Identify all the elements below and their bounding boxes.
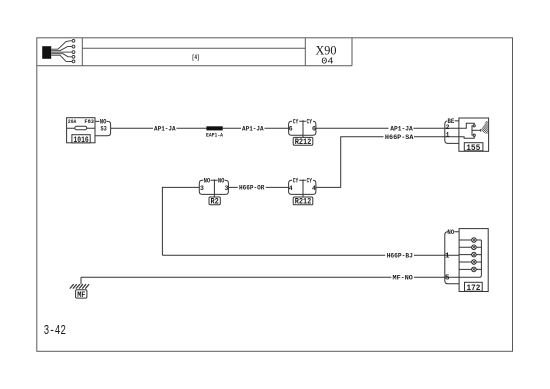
wire from R2 pin 3 to riser: [162, 187, 199, 255]
svg-text:EAP1-A: EAP1-A: [206, 132, 223, 138]
ECU box 155: [459, 118, 489, 151]
svg-text:4: 4: [289, 185, 293, 192]
svg-text:NO: NO: [204, 178, 211, 185]
svg-text:MF-NO: MF-NO: [393, 275, 413, 282]
fuse F83: [67, 118, 95, 143]
svg-text:AP1-JA: AP1-JA: [154, 126, 176, 133]
harness connector icon: [42, 39, 75, 62]
svg-text:F83: F83: [84, 118, 94, 125]
label 1016: [72, 135, 90, 145]
svg-text:1: 1: [446, 132, 450, 139]
svg-text:3: 3: [200, 185, 204, 192]
svg-text:1016: 1016: [73, 136, 88, 145]
label R212: [293, 137, 313, 147]
spray symbol: [479, 121, 488, 134]
svg-text:NO: NO: [218, 178, 225, 185]
svg-text:172: 172: [467, 284, 481, 293]
svg-text:NO: NO: [447, 229, 454, 236]
connector R212 pins 6-6: [289, 118, 316, 137]
svg-text:6: 6: [312, 125, 316, 132]
label 155: [464, 143, 483, 153]
drawing frame: [37, 38, 513, 352]
wire AP1-JA segment 2: [223, 125, 289, 133]
svg-text:5: 5: [445, 275, 450, 283]
splice EAP1-A: [206, 126, 223, 138]
wire H66P-SA: [316, 134, 459, 188]
svg-text:2: 2: [446, 124, 450, 131]
svg-text:R2: R2: [211, 198, 219, 207]
svg-text:MF: MF: [77, 291, 85, 300]
svg-text:155: 155: [466, 144, 480, 153]
svg-text:1: 1: [445, 252, 450, 260]
label R212 second: [293, 197, 313, 207]
wire MF-NO: [81, 274, 459, 282]
connector S3 pin NO: [95, 118, 111, 135]
svg-text:H66P-BJ: H66P-BJ: [387, 253, 413, 260]
svg-text:3-42: 3-42: [44, 323, 66, 339]
svg-text:CY: CY: [307, 178, 313, 185]
wire AP1-JA segment 1: [111, 125, 207, 133]
connector NO pins 1,5 (172): [445, 229, 459, 284]
wire AP1-JA segment 3: [316, 125, 459, 133]
svg-text:CY: CY: [293, 118, 299, 125]
indicator lamps: [459, 238, 481, 278]
label 172: [465, 282, 483, 293]
wire H66P-BJ: [162, 252, 459, 260]
svg-text:6: 6: [289, 125, 293, 132]
svg-text:CY: CY: [307, 118, 313, 125]
label MF: [76, 290, 87, 300]
svg-text:4: 4: [312, 185, 316, 192]
connector BE pins 2,1: [445, 118, 459, 144]
svg-text:20A: 20A: [68, 118, 77, 125]
svg-text:CY: CY: [293, 178, 299, 185]
svg-text:R212: R212: [295, 138, 312, 147]
svg-text:H66P-OR: H66P-OR: [239, 185, 265, 192]
svg-text:AP1-JA: AP1-JA: [390, 126, 413, 133]
label R2: [209, 197, 220, 207]
svg-text:R212: R212: [295, 198, 312, 207]
svg-text:AP1-JA: AP1-JA: [242, 126, 264, 133]
svg-text:04: 04: [321, 55, 334, 66]
svg-text:S3: S3: [100, 125, 106, 132]
ground MF symbol: [70, 277, 89, 288]
connector R212 pins 4-4: [289, 178, 316, 197]
connector R2 pins 3-3: [199, 178, 228, 197]
svg-text:H66P-SA: H66P-SA: [385, 134, 414, 141]
lamp module box 172: [459, 229, 488, 292]
switch contacts in 155: [459, 123, 479, 138]
wire H66P-OR: [228, 184, 288, 192]
title bar: [37, 38, 352, 66]
svg-text:3: 3: [224, 185, 228, 192]
svg-text:[4]: [4]: [192, 54, 200, 61]
